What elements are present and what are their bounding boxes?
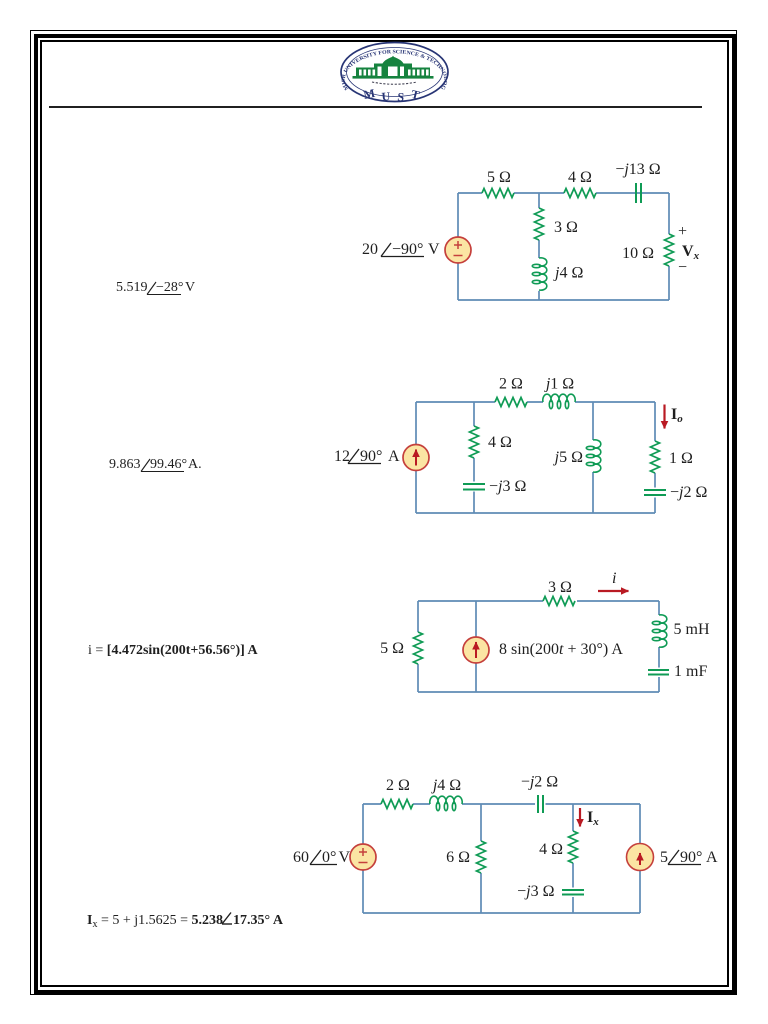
svg-text:j1 Ω: j1 Ω: [544, 376, 574, 393]
current source 12/90 c2: [403, 445, 429, 471]
svg-text:0°: 0°: [322, 849, 336, 866]
inductor 5mH c3: [652, 615, 667, 647]
wire branch1 c2: [473, 402, 475, 513]
wire right rail c3: [658, 601, 660, 692]
wire left rail c3: [417, 601, 419, 692]
svg-text:3 Ω: 3 Ω: [548, 579, 572, 596]
svg-text:5 Ω: 5 Ω: [380, 640, 404, 657]
svg-text:Io: Io: [671, 406, 683, 425]
svg-text:Ix: Ix: [587, 809, 599, 828]
label 60/0V c4: [293, 849, 351, 866]
svg-text:V: V: [185, 280, 195, 295]
svg-text:−: −: [678, 259, 687, 276]
svg-text:+: +: [678, 223, 687, 240]
svg-text:2 Ω: 2 Ω: [386, 777, 410, 794]
svg-text:5 mH: 5 mH: [674, 621, 710, 638]
answer 4: [87, 913, 284, 931]
wire bottom rail c4: [363, 912, 640, 914]
svg-text:10 Ω: 10 Ω: [622, 245, 654, 262]
svg-text:V: V: [428, 241, 440, 258]
resistor 2ohm c2: [495, 398, 527, 407]
green building: [353, 56, 434, 79]
resistor 4ohm c2: [470, 426, 479, 458]
svg-text:−j3 Ω: −j3 Ω: [517, 883, 554, 900]
inductor j5ohm c2: [586, 440, 601, 472]
svg-text:i = [4.472sin(200t+56.56°)] A: i = [4.472sin(200t+56.56°)] A: [88, 643, 259, 658]
arrow i c3: [598, 590, 629, 592]
wire bottom rail c2: [416, 512, 655, 514]
wire middle branch c3: [475, 601, 477, 692]
wire branch1 c4: [480, 804, 482, 913]
svg-text:12: 12: [334, 448, 350, 465]
wire right rail c4: [639, 804, 641, 913]
wire right rail c1: [668, 193, 670, 300]
svg-text:Ix = 5 + j1.5625 = 5.238: Ix = 5 + j1.5625 = 5.238: [87, 913, 223, 930]
capacitor -j2ohm c4: [538, 795, 543, 813]
svg-text:−28°: −28°: [156, 280, 184, 295]
wire top rail c2: [416, 401, 655, 403]
svg-text:2 Ω: 2 Ω: [499, 376, 523, 393]
wire top rail c3: [418, 600, 659, 602]
svg-text:99.46°: 99.46°: [150, 457, 187, 472]
current source 5/90 c4: [627, 844, 654, 871]
label 12/90A c2: [334, 448, 400, 465]
resistor 4ohm c1: [564, 189, 596, 198]
resistor 5ohm c3: [414, 632, 423, 664]
inductor j4ohm c1: [532, 258, 547, 290]
wire bottom rail c3: [418, 691, 659, 693]
capacitor -j13ohm c1: [636, 183, 641, 203]
svg-text:20: 20: [362, 241, 378, 258]
wire left rail c1: [457, 193, 459, 300]
svg-text:8 sin(200t + 30°) A: 8 sin(200t + 30°) A: [499, 641, 623, 658]
svg-text:5.519: 5.519: [116, 280, 148, 295]
label 5/90A c4: [660, 849, 718, 866]
resistor 3ohm c1: [535, 208, 544, 240]
wire left rail c4: [362, 804, 364, 913]
svg-text:−j2 Ω: −j2 Ω: [670, 484, 707, 501]
resistor 10ohm c1: [665, 234, 674, 266]
voltage source 60/0 c4: [350, 844, 376, 870]
resistor 4ohm c4: [569, 831, 578, 863]
svg-text:−j2 Ω: −j2 Ω: [521, 774, 558, 791]
wire branch2 c2: [592, 402, 594, 513]
svg-text:90°: 90°: [680, 849, 702, 866]
wire bottom rail c1: [458, 299, 669, 301]
svg-text:j4 Ω: j4 Ω: [431, 777, 461, 794]
capacitor -j3ohm c2: [463, 484, 485, 490]
wire top rail c1: [458, 193, 669, 300]
svg-text:1 mF: 1 mF: [674, 663, 707, 680]
label 20/-90V c1: [362, 241, 440, 258]
svg-text:j5 Ω: j5 Ω: [553, 449, 583, 466]
voltage source 20/-90 c1: [445, 237, 471, 263]
svg-text:−90°: −90°: [392, 241, 423, 258]
inductor j1ohm c2: [543, 394, 575, 409]
resistor 6ohm c4: [477, 841, 486, 873]
svg-text:5: 5: [660, 849, 668, 866]
arrow Io c2: [663, 405, 665, 429]
svg-text:3 Ω: 3 Ω: [554, 219, 578, 236]
svg-text:V: V: [339, 849, 351, 866]
svg-text:4 Ω: 4 Ω: [568, 169, 592, 186]
svg-text:T: T: [410, 87, 421, 102]
svg-text:U: U: [381, 89, 391, 104]
current source 8sin c3: [463, 637, 489, 663]
svg-text:j4 Ω: j4 Ω: [553, 265, 583, 282]
capacitor -j2ohm c2: [644, 490, 666, 495]
wire left rail c2: [415, 402, 417, 513]
resistor 3ohm c3: [543, 597, 575, 606]
svg-text:S: S: [397, 90, 405, 105]
svg-text:60: 60: [293, 849, 309, 866]
svg-text:4 Ω: 4 Ω: [539, 841, 563, 858]
header rule under logo: [49, 106, 702, 108]
svg-text:−j3 Ω: −j3 Ω: [489, 478, 526, 495]
svg-text:5 Ω: 5 Ω: [487, 169, 511, 186]
arrow Ix c4: [579, 808, 581, 827]
svg-text:i: i: [612, 570, 616, 587]
wire right rail c2: [654, 402, 656, 513]
capacitor -j3ohm c4: [562, 890, 584, 895]
answer 1: [116, 280, 195, 295]
svg-text:6 Ω: 6 Ω: [446, 849, 470, 866]
wire middle branch c1: [538, 193, 540, 300]
svg-text:A.: A.: [188, 457, 202, 472]
inductor j4ohm c4: [430, 796, 462, 811]
svg-text:90°: 90°: [360, 448, 382, 465]
resistor 5ohm c1: [482, 189, 514, 198]
svg-text:−j13 Ω: −j13 Ω: [615, 161, 660, 178]
svg-text:4 Ω: 4 Ω: [488, 434, 512, 451]
wire top rail c4: [363, 803, 640, 805]
svg-text:A: A: [706, 849, 718, 866]
resistor 1ohm c2: [651, 441, 660, 473]
answer 2: [109, 457, 202, 472]
svg-text:9.863: 9.863: [109, 457, 141, 472]
university logo (MUST seal): [0, 0, 448, 104]
capacitor 1mF c3: [648, 670, 669, 675]
resistor 2ohm c4: [381, 800, 413, 809]
wire branch2 c4: [572, 804, 574, 913]
svg-text:A: A: [388, 448, 400, 465]
svg-text:17.35° A: 17.35° A: [233, 913, 284, 928]
svg-text:1 Ω: 1 Ω: [669, 450, 693, 467]
